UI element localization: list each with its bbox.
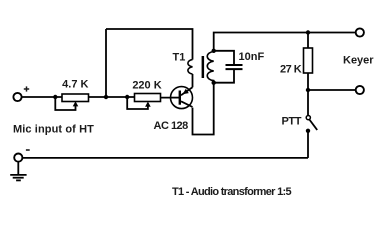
svg-text:4.7 K: 4.7 K xyxy=(62,79,88,91)
wire secondary top to keyer rail xyxy=(214,33,356,51)
wire capacitor top xyxy=(214,51,234,64)
node A junction dot xyxy=(53,95,57,99)
svg-text:PTT: PTT xyxy=(282,115,302,127)
Q1 emitter arrow xyxy=(183,89,189,94)
ground stem xyxy=(17,162,19,175)
svg-text:T1: T1 xyxy=(173,52,186,64)
Q1 base bar xyxy=(179,91,181,105)
ground bar 1 xyxy=(10,174,26,176)
terminal J2 mic input - xyxy=(14,154,22,162)
T1 core xyxy=(202,56,205,78)
wire ground rail xyxy=(23,157,309,159)
svg-text:10nF: 10nF xyxy=(239,51,265,63)
terminal J3 keyer top xyxy=(356,28,364,36)
switch S1 PTT pivot circle xyxy=(306,116,310,120)
svg-text:T1 - Audio transformer 1:5: T1 - Audio transformer 1:5 xyxy=(172,186,291,198)
terminal J4 keyer bottom xyxy=(356,86,364,94)
node B junction dot xyxy=(104,95,108,99)
wiper loop R2 xyxy=(127,98,148,109)
Q1 collector diagonal xyxy=(181,101,193,107)
wire R3 bottom lead xyxy=(307,73,309,90)
terminal J1 mic input + xyxy=(13,93,21,101)
ground bar 2 xyxy=(13,177,24,179)
wire T1 primary bottom to emitter xyxy=(192,74,194,87)
wire node B up xyxy=(105,29,107,97)
node E junction dot (secondary bottom) xyxy=(212,81,216,85)
wire R1 to R2 xyxy=(89,96,135,98)
capacitor C1 top plate xyxy=(226,64,243,66)
node D junction dot (secondary top) xyxy=(212,49,216,53)
node G junction dot (lower keyer rail) xyxy=(306,88,310,92)
resistor R3 body xyxy=(304,48,313,73)
switch S1 lower contact dot xyxy=(306,129,310,133)
wire mic+ to R1 xyxy=(22,96,62,98)
switch S1 blade xyxy=(309,119,317,130)
ground bar 3 xyxy=(16,179,21,181)
wiper arrow R2 xyxy=(145,102,151,107)
wire top rail to T1 primary xyxy=(106,29,193,60)
wire R2 to Q1 base xyxy=(161,97,180,99)
wiper arrow R1 xyxy=(73,101,79,106)
T1 primary winding xyxy=(188,60,193,74)
label + xyxy=(24,86,29,91)
Q1 base wire inside xyxy=(170,97,180,99)
wire secondary bottom to collector U xyxy=(193,83,214,135)
wire R3 top lead xyxy=(307,33,309,49)
wire PTT lower lead xyxy=(307,131,309,158)
wire capacitor bottom xyxy=(214,70,234,83)
T1 secondary winding xyxy=(207,52,213,83)
wiper loop R1 xyxy=(55,98,75,110)
wire PTT upper lead xyxy=(307,90,309,115)
transistor Q1 body circle xyxy=(171,87,193,109)
wire lower keyer rail xyxy=(308,89,356,91)
node C junction dot (R2 left) xyxy=(125,95,129,99)
capacitor C1 bottom plate xyxy=(226,68,243,70)
svg-text:Mic input of HT: Mic input of HT xyxy=(13,123,94,135)
svg-text:Keyer: Keyer xyxy=(343,54,374,66)
potentiometer R2 body xyxy=(135,94,161,102)
svg-text:27 K: 27 K xyxy=(280,64,302,76)
potentiometer R1 body xyxy=(62,94,89,102)
node F junction dot (keyer rail / R3) xyxy=(306,30,310,34)
svg-text:AC 128: AC 128 xyxy=(154,120,189,132)
label - xyxy=(26,149,30,151)
Q1 emitter diagonal xyxy=(181,87,193,95)
svg-text:220 K: 220 K xyxy=(132,80,161,92)
